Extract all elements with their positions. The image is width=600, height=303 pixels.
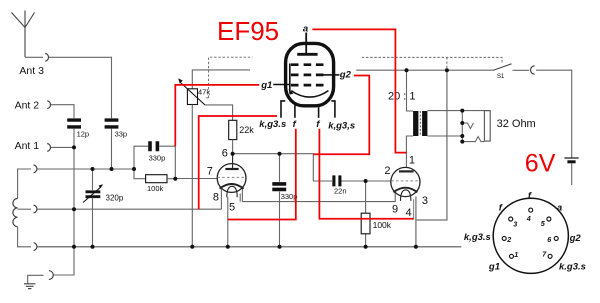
socket circle — [493, 198, 568, 273]
wire coil tap stub — [18, 208, 31, 210]
switch S1 socket arc — [531, 66, 535, 74]
wire tube2 grid resistor branch — [365, 181, 367, 247]
grid combo right bracket — [159, 146, 175, 179]
wire Ant3 horizontal to C33p drop — [49, 57, 112, 118]
wire C12p down through Ant1 node to cathode wire and bus — [73, 129, 75, 247]
tube V1 cathode arc — [220, 184, 244, 189]
connector plug coil bottom — [34, 243, 37, 251]
svg-text:2: 2 — [384, 165, 390, 177]
socket pin 6 circle — [554, 236, 558, 240]
grid combo left bracket — [134, 146, 148, 179]
red wire anode to output transformer — [312, 29, 406, 152]
node anode 330p branch — [278, 152, 282, 156]
svg-text:EF95: EF95 — [217, 16, 279, 46]
svg-text:k,g3.s: k,g3.s — [259, 119, 286, 130]
svg-text:a: a — [303, 23, 308, 34]
tube V1 anode bar — [225, 168, 238, 170]
node bus pot — [190, 245, 194, 249]
wire 330p anode cap branch — [279, 154, 281, 247]
svg-text:9: 9 — [392, 203, 398, 215]
wire switch to battery — [536, 70, 572, 157]
node transformer primary top — [405, 68, 409, 72]
svg-text:12p: 12p — [77, 129, 90, 138]
wire tube1 anode node to 22n corner — [233, 154, 333, 181]
svg-text:22n: 22n — [334, 186, 347, 195]
antenna Ant3 symbol — [12, 11, 35, 58]
EF95 anode bar — [297, 53, 317, 56]
EF95 pin lead f right — [318, 104, 320, 118]
socket pin 5 circle — [547, 217, 551, 221]
wire tube2 heater right leads — [413, 199, 415, 219]
svg-text:4: 4 — [526, 214, 531, 223]
connector plug ground — [49, 271, 53, 280]
red wire f right to tube2 pin4 — [319, 129, 413, 219]
svg-text:20 : 1: 20 : 1 — [388, 91, 416, 103]
EF95 pin lead f left — [294, 104, 296, 118]
svg-text:32 Ohm: 32 Ohm — [497, 118, 536, 130]
node jack secondary bottom — [460, 134, 464, 138]
tube V1 pin8 lead — [220, 189, 222, 209]
wire pot wiper to 22k — [205, 105, 233, 120]
svg-text:2: 2 — [506, 235, 511, 244]
capacitor 33p — [105, 120, 119, 127]
node top rail 320p — [91, 167, 95, 171]
socket pin 2 circle — [502, 236, 506, 240]
svg-text:k.g3.s: k.g3.s — [559, 262, 586, 273]
potentiometer 47k top wire — [192, 70, 250, 89]
resistor 100k tube2 grid — [361, 213, 370, 234]
connector plug Ant3 — [45, 53, 48, 61]
svg-text:g2: g2 — [339, 70, 352, 81]
tube V1 envelope circle — [217, 164, 246, 193]
transformer secondary bottom lead — [427, 135, 462, 137]
svg-text:g1: g1 — [488, 261, 500, 272]
wire 22n to tube2 grid — [342, 180, 391, 182]
svg-text:k,g3,s: k,g3,s — [328, 120, 355, 131]
wire tube1 heater right to tube2 pin9 — [242, 189, 395, 202]
node bus tube2 heater — [414, 245, 418, 249]
wire Ant3 to connector — [25, 56, 43, 58]
phone jack lower contact wire — [462, 137, 484, 142]
capacitor 330p (anode) — [272, 184, 286, 190]
svg-text:22k: 22k — [239, 125, 254, 135]
socket pin 3 circle — [509, 217, 513, 221]
transformer primary bottom lead to tube2 anode — [406, 136, 413, 167]
EF95 g2 lead — [324, 74, 340, 76]
node bus x74 — [72, 245, 76, 249]
svg-text:100k: 100k — [373, 220, 392, 230]
connector plug Ant2 — [47, 101, 50, 109]
transformer primary winding — [413, 111, 418, 136]
red wire g1 to grid combo — [175, 85, 259, 146]
wire Ant1 stub — [51, 146, 74, 148]
svg-text:330p: 330p — [149, 154, 166, 163]
EF95 tube symbol — [273, 33, 339, 118]
EF95 pin lead k,g3,s right — [331, 101, 335, 118]
svg-text:S1: S1 — [497, 74, 505, 80]
node bus 320p — [91, 245, 95, 249]
socket pinout diagram — [493, 198, 568, 273]
node jack lower contact — [460, 140, 464, 144]
node anode tube1 — [231, 152, 235, 156]
transformer secondary winding — [422, 111, 427, 136]
node top rail 33p — [110, 167, 114, 171]
arrow of variable capacitor 320p — [83, 187, 101, 203]
svg-text:k,g3.s: k,g3.s — [464, 232, 491, 243]
wire pot bottom to bus — [191, 105, 193, 247]
socket pin 1 circle — [510, 254, 514, 258]
wire ground branch — [53, 247, 74, 275]
svg-text:Ant 3: Ant 3 — [19, 65, 44, 77]
capacitor 330p (grid) — [150, 141, 157, 151]
resistor 100k grid leak — [146, 175, 167, 183]
connector plug Ant1 — [47, 144, 50, 152]
EF95 pin lead k,g3,s left — [281, 101, 285, 118]
wire coil bottom to bus — [18, 227, 31, 247]
svg-text:1: 1 — [514, 250, 518, 259]
svg-text:33p: 33p — [115, 129, 128, 138]
svg-text:a: a — [557, 202, 562, 213]
svg-text:330p: 330p — [281, 192, 298, 201]
wire grid combo to tube1 grid — [167, 178, 217, 180]
red wire k,g3,s to cathode line — [199, 116, 277, 209]
connector plug coil top — [34, 165, 37, 173]
svg-text:320p: 320p — [106, 194, 124, 203]
svg-text:3: 3 — [422, 195, 428, 207]
potentiometer 47k arrow — [181, 83, 205, 105]
node Ant1/12p junction — [72, 145, 76, 149]
EF95 g1 rail arrowhead — [289, 89, 294, 95]
svg-text:1: 1 — [409, 155, 415, 167]
tube V2 cathode arc — [393, 188, 417, 193]
EF95 g1 rail — [289, 64, 291, 92]
wire bus bottom rail — [37, 246, 461, 248]
svg-text:7: 7 — [207, 166, 213, 178]
switch S1 arm — [493, 64, 512, 71]
svg-text:g1: g1 — [260, 80, 272, 91]
tube V2 envelope circle — [391, 167, 420, 196]
svg-text:6: 6 — [222, 148, 228, 160]
wire tube1 pin5 heater to bus — [227, 197, 229, 247]
wire Ant2 stub — [51, 105, 74, 119]
node tube2 grid — [364, 179, 368, 183]
EF95 anode lead — [305, 33, 307, 54]
red wiring of EF95 — [175, 29, 413, 219]
phone jack upper contact — [462, 123, 473, 129]
capacitor 12p — [67, 120, 81, 127]
node jack top — [460, 109, 464, 113]
phone jack body — [484, 111, 490, 142]
tube V1 heater arch — [227, 186, 237, 197]
EF95 cathode arc — [291, 91, 328, 98]
node top rail combo left — [132, 167, 136, 171]
wire battery bottom — [571, 164, 573, 186]
node bus 100k — [364, 245, 368, 249]
wire cathode line tap to tube1 pin8 — [37, 208, 221, 210]
wire 320p vertical — [92, 169, 94, 247]
red wire g2 to anode node — [313, 76, 369, 155]
switch S1 mid stub — [513, 69, 530, 71]
svg-text:g2: g2 — [569, 233, 582, 244]
wire 22k to anode node — [232, 140, 234, 154]
transformer primary top lead — [407, 70, 414, 111]
capacitor 320p variable — [86, 192, 101, 197]
EF95 g1 lead — [273, 84, 290, 86]
transformer secondary top lead — [427, 110, 489, 112]
node switch rail drop — [445, 68, 449, 72]
tube V2 anode bar — [399, 170, 414, 172]
wire tube1 heater right second lead — [239, 194, 241, 202]
svg-text:6V: 6V — [525, 150, 556, 178]
socket pin 7 circle — [548, 254, 552, 258]
node grid combo out — [173, 177, 177, 181]
svg-text:100k: 100k — [147, 184, 164, 193]
coil L1 — [13, 199, 18, 227]
svg-text:4: 4 — [406, 207, 412, 219]
phone jack vertical link — [461, 111, 463, 142]
svg-text:Ant 2: Ant 2 — [15, 100, 40, 112]
battery 6V plates — [564, 158, 578, 162]
node jack upper contact — [460, 121, 464, 125]
potentiometer 47k body — [187, 89, 197, 105]
EF95 grid dashes — [291, 65, 324, 85]
red wire f left to tube1 pin5 — [228, 129, 296, 220]
tube V1 anode lead — [232, 154, 234, 169]
tube V2 grid dashed — [391, 180, 419, 182]
resistor 22k — [229, 120, 237, 139]
wire tuned-circuit top rail — [18, 169, 31, 199]
svg-text:5: 5 — [229, 201, 235, 213]
socket pin 4 circle — [529, 208, 533, 212]
node bus tube1 heater — [226, 245, 230, 249]
wire C33p to node wire — [111, 129, 113, 169]
tube V2 heater arch — [401, 190, 411, 201]
node bus 330p — [278, 245, 282, 249]
wire top rail to grid combo — [37, 168, 134, 170]
svg-text:3: 3 — [513, 219, 517, 228]
wire ground stub — [28, 275, 44, 283]
transformer core — [419, 111, 421, 136]
wire g2 rail to switch — [356, 69, 493, 71]
wire heater return to switch rail — [416, 70, 447, 220]
svg-text:Ant 1: Ant 1 — [15, 140, 40, 152]
connector plug coil tap — [34, 205, 37, 213]
svg-text:8: 8 — [213, 191, 219, 203]
node cathode line x74 — [72, 207, 76, 211]
dashed original wiring pot to switch — [205, 57, 502, 98]
EF95 envelope — [286, 43, 334, 105]
ground symbol — [24, 284, 36, 289]
tube V1 grid dashed — [217, 176, 245, 178]
capacitor 22n — [334, 175, 340, 186]
